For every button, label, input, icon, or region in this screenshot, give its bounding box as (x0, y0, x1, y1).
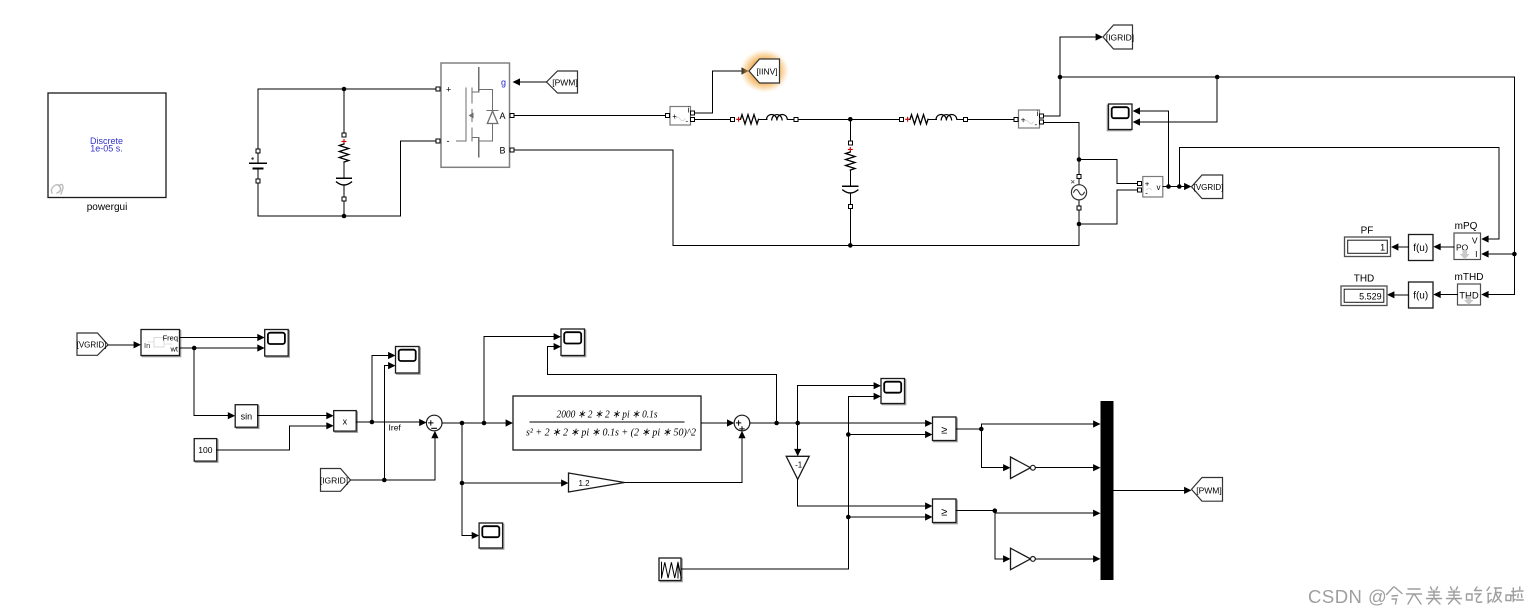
svg-text:-1: -1 (795, 461, 803, 470)
wire: up to scope S4 input 1 (798, 386, 878, 423)
arrowhead scope S4 input 2 (874, 393, 881, 400)
wire: i of CM2 up to IGRID tag (1044, 37, 1096, 116)
wire: IGRID feedback up to scope S2 input 2 (384, 366, 392, 480)
mosfet Q1 icon (inside bridge) (457, 68, 499, 158)
svg-text:+: + (1021, 116, 1026, 125)
Goto tag [IGRID] (1103, 25, 1134, 49)
PLL block (Freq / wt) (141, 330, 181, 357)
arrowhead scope S5 input 2 (554, 343, 561, 350)
wire: VGRID to PLL In (108, 344, 137, 346)
gain block 1.2 (569, 473, 625, 492)
Fcn block f(u) PF (1409, 235, 1434, 261)
watermark CSDN @jintianmeimeichifanla (1308, 586, 1523, 607)
wire: wt output to scope S1 input 2 (180, 347, 262, 349)
SECTION: power circuit (48, 25, 1517, 308)
arrowhead mux input 2 (1093, 464, 1100, 471)
wire: mux output to PWM tag (1114, 489, 1189, 491)
arrowhead into -1 gain (down) (794, 449, 801, 456)
svg-text:v: v (1157, 183, 1161, 192)
sum block sum1 (+-) (426, 415, 442, 431)
wire: NOT2 to mux input 4 (1035, 558, 1097, 560)
arrowhead into PF display (1391, 243, 1398, 250)
wire: f(u) to PF display (1395, 246, 1409, 248)
wire: DC bus bottom (258, 141, 438, 216)
scope S3 (479, 523, 504, 549)
wire: VGRID bus to mPQ V input (1179, 148, 1499, 240)
node: junction carrier to relop2 (846, 515, 851, 520)
arrowhead into IINV tag (742, 67, 749, 74)
SECTION: control circuit (77, 329, 1223, 582)
wire: carrier into relational op 2 input 2 (848, 516, 929, 518)
svg-text:[PWM]: [PWM] (1196, 485, 1222, 495)
From tag [VGRID] (control input) (77, 333, 108, 355)
wire: branch to 1.2 gain (462, 482, 565, 484)
relational operator 2 (>=) (933, 499, 958, 524)
wire: -1 output to relational op 2 input 1 (798, 479, 929, 506)
arrowhead mux input 3 (1093, 510, 1100, 517)
svg-text:wt: wt (170, 345, 179, 354)
current measurement CM2 (grid current) (1014, 109, 1043, 129)
wire: CM2 minus to AC source (1044, 123, 1079, 246)
arrowhead into scope S3 (472, 532, 479, 539)
arrowhead into VGRID tag (1184, 183, 1191, 190)
wire: relop2 output (956, 510, 995, 512)
svg-text:B: B (499, 146, 505, 156)
node: junction AC top (1077, 157, 1082, 162)
arrowhead scope S2 input 1 (388, 352, 395, 359)
Goto tag [IINV] (749, 59, 780, 83)
node: junction IGRID distribution (1058, 75, 1063, 80)
svg-text:+: + (672, 112, 677, 121)
node: top junction at RC branch (342, 87, 347, 92)
logical operator NOT 1 (1011, 457, 1036, 479)
node: junction AC bottom (1077, 222, 1082, 227)
wire: carrier to scope S4 input 2 (848, 395, 877, 397)
arrowhead into mTHD (1481, 291, 1488, 298)
wire: relop1 output (956, 428, 981, 430)
svg-text:i: i (1037, 109, 1039, 118)
svg-text:[VGRID]: [VGRID] (1194, 183, 1224, 192)
wire: carrier into relational op 1 input 2 (848, 434, 929, 436)
svg-text:5.529: 5.529 (1359, 292, 1382, 302)
svg-text:1: 1 (1380, 243, 1385, 253)
node: junction v out 2 (1177, 184, 1182, 189)
node: junction wt branch (192, 346, 197, 351)
svg-text:100: 100 (198, 445, 212, 455)
scope S1 (265, 330, 290, 358)
arrowhead into sin (228, 412, 235, 419)
wire: NOT1 to mux input 2 (1035, 467, 1097, 469)
wire: PWM tag to g port (517, 81, 547, 83)
svg-text:A: A (499, 111, 505, 121)
svg-text:PF: PF (1361, 226, 1374, 237)
svg-text:f(u): f(u) (1413, 243, 1428, 254)
svg-text:[IGRID]: [IGRID] (1106, 33, 1134, 43)
wire: down to -1 gain (797, 423, 799, 453)
wire: bottom return (B phase to AC source) (514, 150, 1079, 245)
arrowhead into transfer fcn (506, 419, 513, 426)
arrowhead into sum2 bottom (738, 431, 745, 438)
wire: long IGRID bus to far right (1060, 77, 1514, 295)
Goto tag [PWM] (1192, 478, 1223, 502)
svg-text:powergui: powergui (87, 202, 128, 213)
arrowhead into PWM tag (1184, 487, 1191, 494)
svg-text:Iref: Iref (389, 423, 402, 433)
arrowhead product in1 (326, 412, 333, 419)
svg-text:1.2: 1.2 (578, 479, 590, 488)
wire: phase A to current sensor (514, 115, 666, 117)
node: junction at scope drop (1215, 75, 1220, 80)
wire: wt down to sin (194, 348, 231, 416)
relational operator 1 (>=) (933, 417, 958, 442)
node: bottom junction at RC branch (342, 214, 347, 219)
wire: v output to VGRID tag (1163, 186, 1188, 188)
scope S4 (881, 379, 906, 405)
powergui block (48, 93, 166, 198)
arrowhead scope S1 input 1 (257, 334, 264, 341)
scope S6 (grid V/I, mirrored) (1107, 104, 1132, 131)
voltage measurement VM1 (1138, 177, 1163, 198)
resistor R2 + inductor L2 (grid side) (850, 114, 1014, 124)
sum block sum2 (++) (734, 415, 750, 431)
half-bridge converter U1 (436, 63, 514, 167)
wire: i output of CM1 up to IINV tag (695, 71, 741, 113)
wire: relop1 down to NOT gate 1 (981, 429, 1007, 468)
arrowhead into sum2 (727, 419, 734, 426)
arrowhead into mPQ V (1481, 235, 1488, 242)
wire: AC top junction to voltage sensor + (1079, 160, 1137, 184)
svg-text:THD: THD (1354, 274, 1375, 285)
RC snubber branch 1 (DC side) (337, 89, 352, 216)
node: junction error branch 1 (460, 421, 465, 426)
svg-text:[PWM]: [PWM] (552, 78, 578, 88)
current measurement CM1 (inverter current) (666, 106, 695, 126)
arrowhead into relational op 1 input 1 (925, 420, 932, 427)
RC filter branch 2 (shunt) (843, 119, 858, 245)
arrowhead into f(u) PF (1433, 243, 1440, 250)
wire: sin to product in1 (258, 415, 330, 417)
repeating sequence (triangle carrier) (659, 558, 682, 582)
wire: VGRID up into scope input 1 (1140, 111, 1169, 187)
arrowhead into g port (513, 78, 521, 85)
arrowhead into sum1 bottom (431, 431, 438, 438)
node: junction filter cap top (848, 117, 853, 122)
wire: 100 to product in2 (217, 426, 330, 450)
battery E1 (DC voltage source) (250, 89, 267, 216)
From tag [IGRID] (feedback) (320, 469, 351, 492)
wire: IGRID drop into scope input 2 (1140, 77, 1217, 122)
svg-text:-: - (686, 117, 689, 126)
node: junction at 1.2 gain branch (460, 481, 465, 486)
wire: mPQ PQ output to f(u) (1437, 246, 1454, 248)
resistor R1 + inductor L1 (series RL inverter side) (695, 114, 849, 124)
wire: relop2 down to NOT gate 2 (995, 511, 1007, 559)
arrowhead into mPQ I (1481, 250, 1488, 257)
arrowhead scope S1 input 2 (257, 344, 264, 351)
svg-text:[VGRID]: [VGRID] (77, 341, 107, 350)
svg-text:x: x (343, 416, 348, 426)
product block x (334, 411, 358, 433)
logical operator NOT 2 (1011, 548, 1036, 570)
wire: relop2 to mux input 3 (995, 511, 1097, 514)
svg-text:2000 ∗ 2 ∗ 2 ∗ pi ∗ 0.1s: 2000 ∗ 2 ∗ 2 ∗ pi ∗ 0.1s (557, 409, 658, 421)
arrowhead scope S6 input 1 (1133, 107, 1140, 114)
svg-text:-: - (447, 136, 450, 146)
arrowhead mux input 4 (1093, 555, 1100, 562)
svg-text:+: + (446, 85, 451, 95)
wire: sum1 output to transfer fcn (442, 422, 510, 424)
arrowhead into sum1 (419, 419, 426, 426)
svg-text:≥: ≥ (941, 506, 947, 518)
node: junction at mPQ I input (1512, 252, 1517, 257)
arrowhead into relational op 2 input 1 (925, 502, 932, 509)
svg-text:≥: ≥ (941, 424, 947, 436)
svg-text:CSDN @: CSDN @ (1308, 586, 1387, 607)
arrowhead product in2 (326, 422, 333, 429)
wire: transfer fcn output to sum2 (701, 422, 731, 424)
arrowhead into PLL In (134, 341, 141, 348)
arrowhead into NOT gate 1 (1003, 464, 1010, 471)
arrowhead into relational op 1 input 2 (925, 431, 932, 438)
svg-text:f(u): f(u) (1413, 291, 1428, 302)
wire: 1.2 gain output up to sum2 bottom (625, 434, 743, 482)
wire: PR controller output to relational op 1 (750, 422, 929, 424)
node: junction relop2 output (993, 508, 998, 513)
svg-text:s² + 2 ∗ 2 ∗ pi ∗ 0.1s + (2 ∗: s² + 2 ∗ 2 ∗ pi ∗ 0.1s + (2 ∗ pi ∗ 50)^2 (526, 427, 696, 439)
wire: error down to 1.2 gain and scope S3 (462, 423, 476, 536)
arrowhead into IGRID tag (1096, 33, 1103, 40)
svg-text:-: - (1035, 120, 1038, 129)
mux (black bar) (1101, 401, 1114, 580)
subsystem mPQ (1454, 221, 1481, 260)
svg-text:[IGRID]: [IGRID] (320, 476, 348, 486)
arrowhead scope S2 input 2 (388, 362, 395, 369)
svg-text:g: g (501, 78, 506, 88)
wire: IGRID to sum1 minus input (351, 434, 435, 480)
wire: f(u) to THD display (1391, 294, 1409, 296)
display PF (1345, 226, 1391, 257)
arrowhead into 1.2 gain (561, 479, 568, 486)
svg-text:[IINV]: [IINV] (756, 67, 777, 77)
wire: Freq output to scope S1 (180, 337, 262, 339)
svg-text:Freq: Freq (163, 334, 178, 343)
arrowhead scope S6 input 2 (1133, 118, 1140, 125)
arrowhead into f(u) THD (1433, 291, 1440, 298)
node: junction v out 1 (1166, 184, 1171, 189)
arrowhead mux input 1 (1093, 420, 1100, 427)
svg-text:+: + (1145, 179, 1150, 188)
node: junction carrier to relop1 (846, 432, 851, 437)
svg-text:V: V (1472, 236, 1478, 246)
node: junction IGRID feedback (382, 478, 387, 483)
constant block 100 (194, 439, 218, 463)
svg-text:sin: sin (241, 412, 253, 422)
arrowhead into THD display (1387, 291, 1394, 298)
svg-text:mTHD: mTHD (1455, 272, 1484, 283)
trig function block sin (235, 405, 259, 429)
wire: mTHD output to f(u) (1437, 294, 1458, 296)
gain block -1 (down) (786, 456, 809, 479)
highlight glow around IINV (740, 49, 790, 93)
node: junction error branch 2 (482, 421, 487, 426)
wire: product output to sum1 (356, 421, 423, 423)
wire: carrier to comparators (681, 396, 848, 569)
wire: AC bottom junction to voltage sensor - (1079, 190, 1137, 224)
svg-text:mPQ: mPQ (1455, 221, 1478, 232)
Goto tag [VGRID] (1192, 175, 1224, 199)
subsystem mTHD (1455, 272, 1484, 305)
wire: Iref up to scope S2 input1 (372, 356, 392, 423)
From tag [PWM] (gate drive) (547, 71, 578, 93)
svg-text:i: i (688, 106, 690, 115)
transfer fcn block (resonant controller) (513, 396, 701, 450)
AC voltage source G1 (1071, 175, 1086, 210)
arrowhead scope S4 input 1 (874, 382, 881, 389)
svg-text:In: In (144, 341, 150, 350)
arrowhead into NOT gate 2 (1003, 555, 1010, 562)
node: junction scope S5 loop (774, 421, 779, 426)
display THD (1341, 274, 1387, 306)
node: junction filter cap bottom (848, 243, 853, 248)
wire: DC bus top (battery to bridge +) (258, 88, 438, 90)
arrowhead into relational op 2 input 2 (925, 513, 932, 520)
Fcn block f(u) THD (1409, 282, 1434, 308)
node: junction scope S4 / -1 branch (795, 421, 800, 426)
node: junction Iref branch (370, 420, 375, 425)
wire: relop1 to mux input 1 (981, 424, 1097, 429)
svg-text:I: I (1475, 249, 1477, 259)
svg-text:-: - (1145, 188, 1148, 197)
wire: branch to mPQ I input (1485, 253, 1514, 255)
scope S2 (396, 347, 421, 375)
svg-text:1e-05 s.: 1e-05 s. (90, 144, 123, 154)
wire: PR output loop back to scope S5 input 2 (548, 347, 777, 423)
wire: error up to scope S5 input1 (484, 337, 558, 423)
arrowhead scope S5 input 1 (554, 333, 561, 340)
scope S5 (561, 329, 586, 357)
node: junction relop1 output (979, 427, 984, 432)
